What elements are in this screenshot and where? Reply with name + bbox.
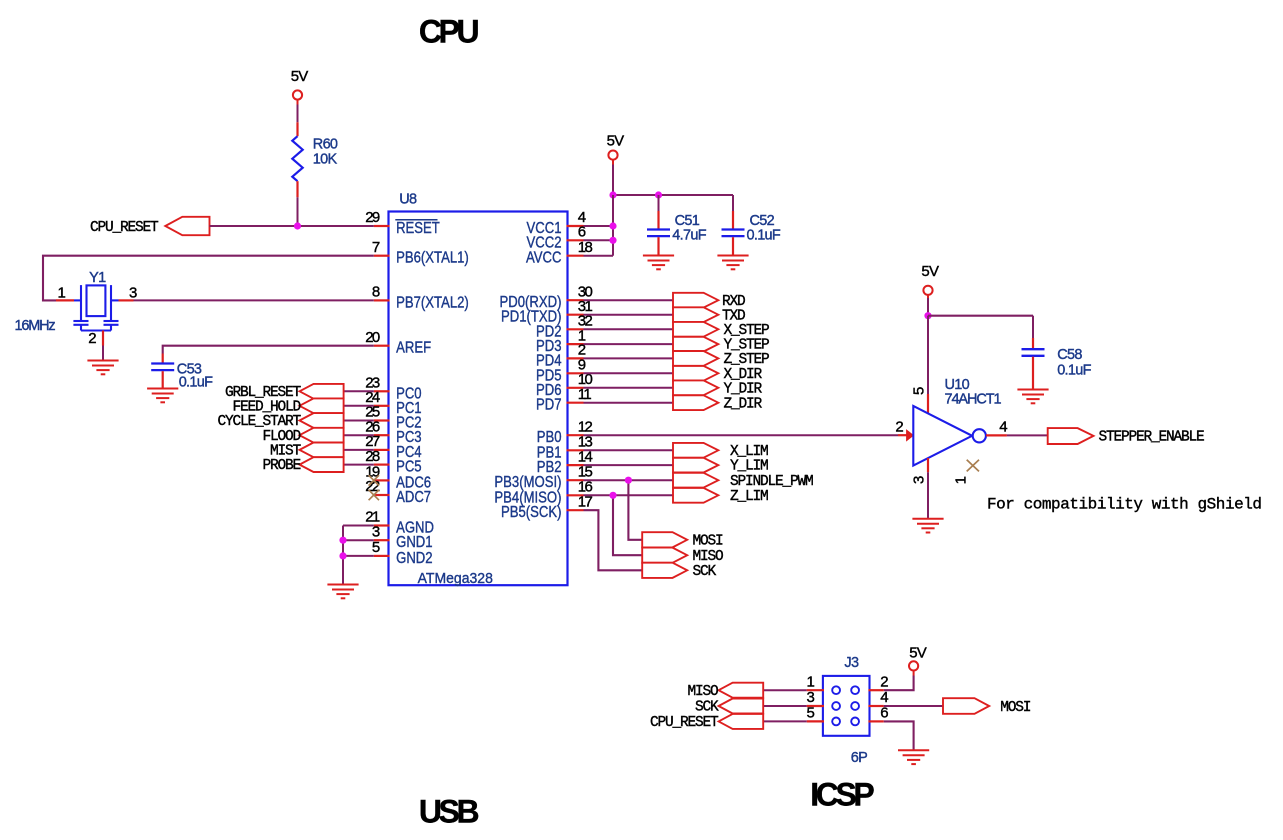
svg-text:0.1uF: 0.1uF bbox=[1057, 362, 1091, 378]
svg-text:PB5(SCK): PB5(SCK) bbox=[501, 504, 562, 521]
svg-text:For compatibility with gShield: For compatibility with gShield bbox=[987, 496, 1262, 514]
svg-text:C51: C51 bbox=[675, 213, 700, 229]
svg-text:TXD: TXD bbox=[722, 308, 745, 324]
svg-text:5V: 5V bbox=[291, 68, 309, 85]
svg-text:CYCLE_START: CYCLE_START bbox=[217, 414, 301, 430]
svg-text:USB: USB bbox=[419, 794, 479, 830]
svg-text:MISO: MISO bbox=[687, 684, 718, 700]
svg-text:CPU_RESET: CPU_RESET bbox=[90, 220, 159, 236]
svg-text:SCK: SCK bbox=[695, 700, 719, 716]
svg-text:20: 20 bbox=[365, 329, 380, 346]
svg-text:18: 18 bbox=[578, 239, 593, 256]
svg-text:10K: 10K bbox=[313, 152, 338, 168]
svg-text:SCK: SCK bbox=[693, 564, 717, 580]
svg-text:Y1: Y1 bbox=[89, 270, 106, 286]
svg-text:CPU: CPU bbox=[419, 14, 479, 50]
svg-text:74AHCT1: 74AHCT1 bbox=[945, 392, 1002, 408]
svg-text:FEED_HOLD: FEED_HOLD bbox=[232, 399, 300, 415]
svg-text:ADC7: ADC7 bbox=[396, 489, 431, 506]
svg-text:FLOOD: FLOOD bbox=[262, 429, 300, 445]
svg-text:MISO: MISO bbox=[693, 549, 724, 565]
svg-text:GND1: GND1 bbox=[396, 534, 433, 551]
svg-text:AREF: AREF bbox=[396, 340, 431, 357]
svg-text:29: 29 bbox=[365, 209, 380, 226]
svg-text:AVCC: AVCC bbox=[526, 250, 562, 267]
svg-text:0.1uF: 0.1uF bbox=[747, 227, 781, 243]
svg-text:0.1uF: 0.1uF bbox=[179, 374, 213, 390]
svg-text:5V: 5V bbox=[921, 263, 939, 280]
svg-text:SPINDLE_PWM: SPINDLE_PWM bbox=[730, 474, 813, 490]
svg-text:U10: U10 bbox=[945, 377, 970, 393]
svg-text:CPU_RESET: CPU_RESET bbox=[650, 715, 719, 731]
svg-text:STEPPER_ENABLE: STEPPER_ENABLE bbox=[1099, 430, 1205, 446]
svg-text:4.7uF: 4.7uF bbox=[672, 227, 706, 243]
svg-text:X_STEP: X_STEP bbox=[724, 323, 770, 339]
svg-text:C52: C52 bbox=[750, 213, 775, 229]
svg-text:J3: J3 bbox=[844, 655, 859, 671]
svg-text:5V: 5V bbox=[607, 133, 625, 150]
svg-text:C58: C58 bbox=[1057, 347, 1082, 363]
svg-text:PC5: PC5 bbox=[396, 459, 422, 476]
svg-text:5V: 5V bbox=[909, 645, 927, 662]
svg-text:U8: U8 bbox=[399, 191, 417, 207]
svg-text:Z_DIR: Z_DIR bbox=[724, 396, 763, 412]
svg-text:16MHz: 16MHz bbox=[15, 318, 56, 334]
svg-text:ATMega328: ATMega328 bbox=[418, 570, 493, 587]
svg-text:PD7: PD7 bbox=[536, 397, 562, 414]
svg-text:Z_LIM: Z_LIM bbox=[730, 489, 768, 505]
svg-text:Y_DIR: Y_DIR bbox=[724, 381, 763, 397]
svg-text:PB6(XTAL1): PB6(XTAL1) bbox=[396, 250, 469, 267]
svg-text:MIST: MIST bbox=[270, 444, 302, 460]
svg-text:6P: 6P bbox=[851, 750, 867, 766]
svg-text:PROBE: PROBE bbox=[262, 458, 300, 474]
svg-text:MOSI: MOSI bbox=[1000, 700, 1031, 716]
svg-text:GND2: GND2 bbox=[396, 550, 433, 567]
svg-text:Y_LIM: Y_LIM bbox=[730, 459, 768, 475]
svg-text:MOSI: MOSI bbox=[693, 533, 724, 549]
svg-text:R60: R60 bbox=[313, 137, 338, 153]
svg-text:X_LIM: X_LIM bbox=[730, 444, 768, 460]
svg-text:ICSP: ICSP bbox=[810, 777, 874, 813]
svg-text:PB7(XTAL2): PB7(XTAL2) bbox=[396, 294, 469, 311]
svg-text:RESET: RESET bbox=[396, 220, 440, 237]
svg-text:Z_STEP: Z_STEP bbox=[724, 352, 770, 368]
